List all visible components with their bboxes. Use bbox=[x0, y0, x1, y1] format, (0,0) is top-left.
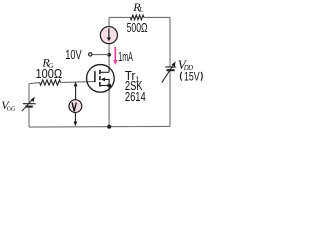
mosfet gate bar bbox=[94, 71, 96, 82]
variable arrow VGG bbox=[22, 99, 33, 111]
voltmeter V1 bbox=[69, 100, 82, 113]
svg-text:10V: 10V bbox=[65, 47, 82, 62]
wire gate left segment bbox=[29, 83, 40, 84]
probe arrow to bottom rail bbox=[74, 112, 76, 121]
wire left side lower bbox=[28, 107, 30, 128]
battery VDD long plate bbox=[165, 66, 176, 68]
battery VGG long plate bbox=[23, 103, 36, 105]
battery VDD short plate bbox=[167, 69, 175, 71]
junction dot bottom rail bbox=[107, 125, 111, 129]
svg-text:100Ω: 100Ω bbox=[36, 66, 63, 81]
mosfet body stub and arrow bbox=[105, 79, 110, 85]
label 15V bbox=[180, 72, 181, 81]
probe arrow to gate wire bbox=[74, 82, 78, 87]
junction dot source bbox=[107, 84, 111, 88]
current source CS bbox=[100, 27, 117, 44]
terminal 10V bbox=[89, 53, 92, 56]
mosfet channel dashes bbox=[99, 70, 101, 87]
wire right side upper bbox=[169, 17, 171, 67]
wire top rail right of RL bbox=[144, 16, 170, 18]
wire 10V test lead bbox=[92, 54, 109, 56]
svg-text:1mA: 1mA bbox=[118, 49, 133, 64]
svg-text:500Ω: 500Ω bbox=[127, 20, 148, 35]
svg-text:2614: 2614 bbox=[125, 90, 146, 104]
wire top rail left of RL bbox=[109, 16, 130, 18]
mosfet Tr1 circle bbox=[87, 65, 115, 93]
junction dot drain test point bbox=[107, 53, 111, 57]
wire left side upper bbox=[28, 84, 30, 104]
wire drain vertical bbox=[108, 44, 110, 67]
resistor RL bbox=[130, 15, 144, 20]
wire source vertical bbox=[108, 90, 110, 126]
wire bottom rail bbox=[29, 125, 170, 128]
wire gate right segment bbox=[61, 81, 95, 82]
current arrow 1mA bbox=[114, 47, 116, 61]
battery VGG short plate bbox=[25, 106, 32, 108]
mosfet drain stub bbox=[101, 71, 110, 73]
svg-text:15V: 15V bbox=[184, 69, 200, 83]
mosfet source stub bbox=[101, 85, 110, 87]
variable arrow VDD bbox=[162, 64, 174, 83]
wire drain to rail bbox=[108, 17, 110, 26]
resistor RG bbox=[40, 80, 61, 85]
mosfet source vertical inside circle bbox=[108, 86, 110, 91]
wire right side lower bbox=[169, 70, 171, 126]
mosfet drain vertical inside circle bbox=[108, 67, 110, 73]
